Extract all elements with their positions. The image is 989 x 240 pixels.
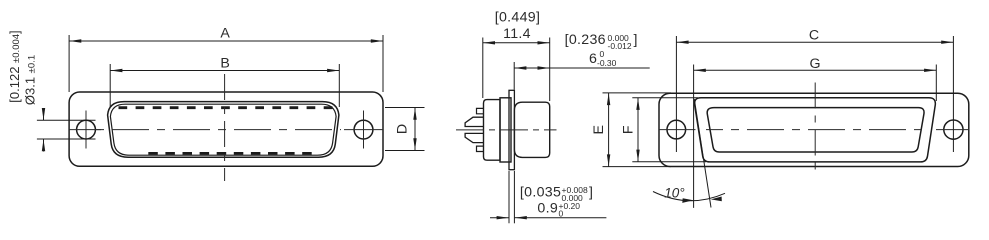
rear view horizontal centerline: [706, 129, 924, 131]
rear hole left crosshair: [659, 129, 696, 131]
svg-text:-0.30: -0.30: [597, 58, 617, 68]
svg-text:Ø3.1 ±0.1: Ø3.1 ±0.1: [23, 55, 38, 105]
angle 10 degree arc: [653, 192, 725, 203]
side view insulator body: [484, 100, 501, 161]
svg-text:[0.449]: [0.449]: [495, 10, 541, 26]
dimension F: [632, 98, 706, 162]
front view outer flange: [69, 92, 383, 166]
svg-text:E: E: [591, 125, 607, 134]
front view vertical centerline: [224, 74, 226, 181]
side view centerline: [456, 129, 557, 131]
rear shell inner contour: [707, 108, 924, 152]
side view mating shell: [514, 102, 549, 157]
svg-text:D: D: [395, 124, 411, 134]
svg-text:[0.122 ±0.004]: [0.122 ±0.004]: [7, 30, 22, 102]
dimension E: [603, 93, 672, 167]
contact slots top row: [119, 106, 333, 109]
rear view outer flange: [659, 93, 969, 166]
svg-text:[0.236: [0.236: [565, 32, 606, 48]
contact slots bottom row: [148, 152, 311, 155]
side view tab upper: [477, 108, 484, 113]
svg-text:-0.012: -0.012: [608, 41, 632, 51]
dimension B: [110, 64, 339, 107]
side view pin lower: [465, 133, 483, 142]
mounting hole right: [354, 120, 373, 139]
svg-text:F: F: [621, 125, 637, 134]
front view horizontal centerline: [96, 129, 341, 131]
mounting hole right crosshair: [344, 111, 383, 149]
front shell outer contour: [108, 102, 339, 158]
side view mounting flange: [509, 90, 514, 169]
side view tab lower: [477, 146, 484, 151]
svg-text:0.9: 0.9: [537, 201, 558, 217]
side view body front section: [500, 98, 511, 162]
side view pin upper: [465, 117, 483, 126]
dimension A: [69, 35, 383, 92]
dimension 0.9 flange thickness: [490, 171, 606, 223]
front shell inner contour: [110, 104, 336, 155]
dimension G: [694, 65, 937, 208]
svg-text:G: G: [809, 56, 820, 72]
dimension C: [676, 36, 953, 152]
svg-text:B: B: [220, 55, 229, 71]
dimension hole diameter 3.1: [37, 108, 96, 152]
mounting hole left crosshair: [69, 111, 101, 149]
rear mounting hole left: [667, 120, 686, 139]
dimension 11.4: [483, 38, 550, 102]
rear view vertical centerline: [814, 83, 816, 176]
svg-text:C: C: [809, 27, 819, 43]
dimension D: [385, 108, 425, 151]
rear shell outer contour: [695, 98, 936, 162]
svg-text:]: ]: [589, 184, 593, 200]
svg-text:A: A: [220, 26, 230, 42]
svg-text:0: 0: [559, 208, 564, 218]
rear hole right crosshair: [936, 129, 969, 131]
mounting hole left: [77, 120, 96, 139]
dimension 6: [514, 62, 650, 90]
svg-text:]: ]: [634, 32, 638, 48]
svg-text:11.4: 11.4: [503, 26, 531, 42]
rear mounting hole right: [944, 120, 963, 139]
svg-text:[0.035: [0.035: [520, 184, 561, 200]
svg-text:10°: 10°: [664, 186, 685, 201]
angle 10 degree side line extended: [694, 99, 711, 208]
svg-text:6: 6: [589, 51, 597, 67]
